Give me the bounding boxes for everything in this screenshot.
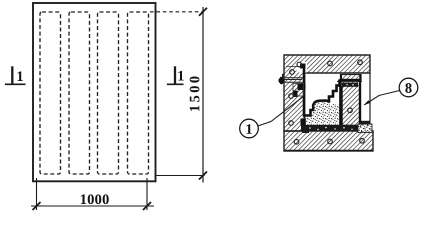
liner bottom bar left stub <box>302 126 309 133</box>
liner bottom bar speckles <box>309 127 352 131</box>
cavity loop 2 (dashed) <box>69 12 90 174</box>
rib left face extra thick line <box>339 86 342 126</box>
dimension 1000 extension line right <box>146 178 148 210</box>
cavity loop 4 (dashed) <box>128 12 149 174</box>
balloon 8 leader <box>365 91 400 105</box>
anchor bolt plate lines <box>280 79 303 81</box>
section detail: bottom slab bottom edge <box>284 150 373 152</box>
dimension 1500 text (rotated) <box>190 76 200 110</box>
stipple fill (mound in channel) <box>305 102 340 125</box>
section detail: cap under-band (dark) <box>342 83 358 87</box>
panel outline (plan view) <box>33 3 156 181</box>
balloon 8 circle <box>399 78 418 97</box>
dimension 1000 tick left <box>33 202 41 210</box>
section detail: right outer edge line <box>369 73 371 121</box>
dimension 1000 line <box>31 205 154 207</box>
channel liner left profile and dome (thick) <box>304 64 340 116</box>
section detail: rib (hatched, thick outline) <box>341 80 361 126</box>
stipple block bottom right <box>358 124 372 133</box>
liner top lip <box>300 64 306 69</box>
lip notch (white) in top slab <box>297 62 308 73</box>
liner bottom bar <box>301 125 358 131</box>
dimension 1500 extension line top (dashed) <box>150 11 204 13</box>
balloon 8 leader arrowhead <box>364 100 371 105</box>
section detail: bottom slab (hatched) <box>284 131 373 151</box>
dimension 1000 tick right <box>143 202 151 210</box>
section marker 1 left label <box>18 71 23 81</box>
dimension 1500 tick top <box>199 8 207 16</box>
dimension 1500 tick bottom <box>199 172 207 180</box>
balloon 8 label <box>405 83 411 93</box>
section marker 1 right label <box>178 71 183 81</box>
section marker 1 right <box>167 66 184 84</box>
anchor bolt head <box>278 78 284 84</box>
cap seat line <box>337 80 362 82</box>
band left portion bottom edge <box>284 77 305 79</box>
section detail: channel cap strip <box>341 75 362 81</box>
section marker 1 left <box>5 66 26 84</box>
balloon 1 label <box>247 124 252 134</box>
dimension 1000 extension line left <box>36 178 38 210</box>
rebate square on left wall <box>293 84 304 97</box>
liner left hook (stepped dark mass) <box>298 84 306 91</box>
aggregate circles <box>289 60 365 144</box>
dimension 1500 line <box>202 7 204 183</box>
liner bottom-left corner mass <box>301 119 306 126</box>
cavity loop 1 (dashed) <box>40 12 61 174</box>
section detail: top slab and left wall (hatched L-shape) <box>284 55 370 131</box>
air gap sill (dark) <box>359 121 371 124</box>
cavity loop 3 (dashed) <box>98 12 119 174</box>
anchor bolt pin <box>282 74 284 78</box>
dimension 1000 text <box>81 194 109 204</box>
dimension 1500 extension line bottom <box>156 175 205 177</box>
band inner joint line <box>286 66 300 68</box>
balloon 1 leader <box>258 96 304 126</box>
balloon 1 circle <box>240 119 259 138</box>
